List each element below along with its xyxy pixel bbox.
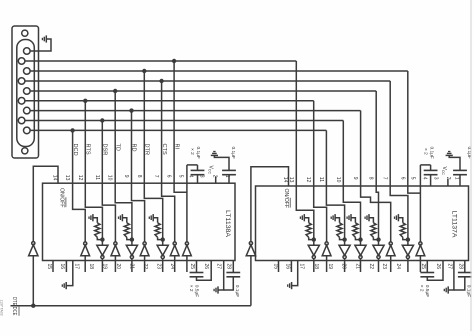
wire U2 ch1 output pin: [313, 259, 315, 272]
wire DCD drop to U1: [72, 130, 74, 183]
svg-text:20: 20: [115, 264, 121, 270]
wire U2 ch6 output pin: [390, 256, 392, 272]
wire signal row 7: [30, 110, 361, 112]
svg-text:27: 27: [446, 264, 452, 270]
capacitor C3 0.5uF x2: [190, 272, 204, 274]
svg-text:21: 21: [128, 264, 134, 270]
svg-text:17: 17: [74, 264, 80, 270]
svg-text:0.1µF: 0.1µF: [429, 147, 435, 159]
driver triangle U1 ch7: [173, 242, 176, 245]
DB9 pin circle row 1: [24, 48, 31, 55]
wire C5 to U2 p3: [430, 175, 432, 186]
svg-text:21: 21: [355, 264, 361, 270]
svg-text:CTS: CTS: [161, 144, 167, 155]
junction node U1 ch6: [161, 237, 165, 241]
U2 pin 17 stub gnd hook: [292, 261, 298, 286]
DB9 connector J1 inner D-shell: [17, 40, 35, 147]
wire signal row 3: [30, 70, 408, 72]
wire U1 ch4 jog: [115, 183, 132, 239]
wire U2 ch7 node to input: [407, 240, 409, 246]
wire U2 ch7 jog: [390, 186, 408, 240]
wire U2 p28 to C8: [464, 261, 466, 273]
svg-text:8: 8: [136, 175, 142, 178]
wire DTR drop to U1: [143, 71, 145, 183]
ground U2 ch7: [397, 214, 399, 221]
svg-text:× 2: × 2: [188, 285, 194, 292]
wire U1 ch5 output pin: [144, 256, 146, 272]
wire U1 ch6 jog: [144, 183, 162, 239]
svg-text:23: 23: [381, 264, 387, 270]
wire DTE/DCE control line: [11, 305, 251, 307]
label DCE overline: [18, 307, 20, 316]
ground U1 pin 17: [65, 282, 67, 289]
wire U2 ch8 jog: [408, 186, 421, 193]
wire signal row 4: [25, 80, 390, 82]
svg-text:18: 18: [88, 264, 94, 270]
junction node TD row 5: [113, 89, 117, 93]
wire U2 ch8 output pin: [419, 256, 421, 272]
ground U1 ch2: [92, 214, 94, 221]
resistor U1 ch6: [155, 223, 160, 238]
svg-text:12: 12: [305, 177, 311, 183]
wire U2 ch7 gnd lead: [398, 218, 402, 223]
wire gnd to C2: [214, 155, 229, 170]
wire U2 ON/OFF pin 14: [251, 167, 289, 242]
wire U4 output down: [250, 256, 252, 306]
ground U1 ch6: [152, 214, 154, 221]
capacitor C4 0.1uF: [226, 272, 240, 274]
receiver triangle U2 ch5: [373, 245, 384, 255]
svg-text:LT1137A: LT1137A: [451, 211, 457, 238]
ground U2 pin 17: [291, 282, 293, 289]
wire U1 ON/OFF pin 14: [33, 166, 58, 241]
buffer U4 DTE/DCE right: [246, 245, 255, 256]
svg-text:DSR: DSR: [102, 144, 108, 156]
label U1 ON/OFF overline: [65, 197, 67, 207]
receiver triangle U2 ch4: [355, 245, 366, 255]
receiver triangle U1 ch6: [157, 245, 168, 255]
wire U1 ch7 output pin: [174, 256, 176, 272]
driver triangle U2 ch6: [389, 242, 392, 245]
wire U1 ch2 gnd lead: [93, 218, 97, 223]
svg-text:19: 19: [327, 264, 333, 270]
svg-text:3: 3: [433, 177, 439, 180]
wire DB9 gnd pin to chassis ground: [30, 39, 51, 51]
resistor U2 ch1: [306, 223, 311, 238]
svg-text:× 2: × 2: [189, 148, 195, 155]
wire U1 ch1 jog: [73, 183, 86, 242]
svg-text:6: 6: [166, 175, 172, 178]
receiver triangle U2 ch7: [402, 245, 413, 255]
wire U1 ch6 node to input: [162, 240, 164, 246]
ground up U2 C6: [446, 154, 453, 156]
ground U1 ch4: [121, 214, 123, 221]
wire U1 ch2 jog: [85, 183, 102, 239]
U2 pin 16 stub: [290, 261, 292, 273]
driver triangle U1 ch8: [185, 242, 188, 245]
svg-text:× 2: × 2: [419, 285, 425, 292]
svg-text:27: 27: [216, 264, 222, 270]
receiver triangle U2 ch1: [308, 245, 319, 255]
wire U1 ch6 output pin: [162, 259, 164, 272]
svg-text:2: 2: [212, 175, 218, 178]
U1 pin 15 stub: [52, 261, 54, 273]
resistor U1 ch4: [124, 223, 129, 238]
svg-text:25: 25: [189, 264, 195, 270]
DB9 pin circle row 3: [24, 68, 31, 75]
wire C1 top lead: [197, 165, 199, 171]
wire U2 ch3 gnd lead: [335, 218, 339, 223]
svg-text:ON/OFF: ON/OFF: [59, 188, 65, 208]
wire U1 pin4 to C1: [187, 164, 198, 166]
wire U2 ch5 gnd lead: [369, 218, 373, 223]
wire signal row 8: [25, 120, 343, 122]
junction node U2 ch1: [312, 237, 316, 241]
wire signal row 6: [25, 100, 314, 102]
svg-text:15: 15: [273, 264, 279, 270]
capacitor C5 0.1uF x2: [424, 169, 438, 171]
DB9 pin circle row 2: [18, 58, 25, 65]
svg-text:28: 28: [225, 264, 231, 270]
svg-text:20: 20: [341, 264, 347, 270]
resistor U2 ch7: [400, 223, 405, 238]
U2 pin 15 stub: [278, 261, 280, 273]
svg-text:24: 24: [395, 264, 401, 270]
junction node U1 ch4: [130, 237, 134, 241]
DB9 mounting hole bottom: [22, 148, 28, 154]
svg-text:28: 28: [458, 264, 464, 270]
U1 pin 16 stub: [65, 261, 67, 273]
svg-text:26: 26: [203, 264, 209, 270]
wire row 3 drop to U2: [407, 71, 409, 186]
wire C6 to U2 p1: [459, 175, 461, 186]
ground U2 ch1: [303, 214, 305, 221]
driver triangle U2 ch8: [419, 242, 422, 245]
wire U2 ch3 jog: [326, 186, 344, 240]
DB9 pin circle row 6: [18, 98, 25, 105]
wire U1 ch2 res to node: [97, 237, 102, 239]
svg-text:24: 24: [169, 264, 175, 270]
wire U1 ch3 jog: [102, 183, 115, 242]
wire C5 top lead: [430, 165, 432, 171]
svg-text:9: 9: [352, 177, 358, 180]
wire U2 ch4 res to node: [355, 237, 360, 239]
wire RTS drop to U1: [84, 101, 86, 183]
svg-text:TD: TD: [114, 144, 120, 151]
wire C3 to U1 p26: [197, 261, 212, 281]
driver triangle U1 ch1: [84, 242, 87, 245]
capacitor C1 0.1uF x2: [191, 169, 205, 171]
svg-text:4: 4: [422, 177, 428, 180]
svg-text:16: 16: [285, 264, 291, 270]
svg-text:RTS: RTS: [85, 144, 91, 155]
junction node control U3: [31, 304, 35, 308]
capacitor C2 0.1uF: [222, 169, 236, 171]
driver triangle U1 ch5: [143, 242, 146, 245]
svg-text:DCD: DCD: [72, 144, 78, 156]
capacitor C7 0.5uF x2: [420, 272, 434, 274]
wire DSR drop to U1: [101, 121, 103, 184]
junction node CTS row 4: [159, 79, 163, 83]
svg-text:23: 23: [156, 264, 162, 270]
ground U1 pin 27: [217, 286, 219, 293]
junction node RI row 2: [172, 59, 176, 63]
wire U2 ch7 res to node: [403, 237, 408, 239]
wire U2 ch4 jog: [343, 186, 360, 240]
IC U1 LT1138A outline: [43, 183, 236, 260]
svg-text:8: 8: [368, 177, 374, 180]
svg-text:0.1µF: 0.1µF: [230, 147, 236, 159]
svg-text:0.5µF: 0.5µF: [193, 285, 199, 297]
U2 pin 2 Vcc stub: [447, 179, 449, 186]
svg-text:0.5µF: 0.5µF: [424, 285, 430, 297]
svg-text:9: 9: [123, 175, 129, 178]
capacitor C8 0.1uF: [458, 272, 472, 274]
svg-text:12: 12: [77, 175, 83, 181]
ground up U1 C2: [211, 154, 218, 156]
wire TD drop to U1: [114, 91, 116, 183]
wire U2 pin4/ch8 vertical: [419, 165, 421, 242]
DB9 connector J1 outer body: [12, 26, 39, 158]
wire U3 output down: [32, 256, 34, 306]
svg-text:11: 11: [94, 175, 100, 180]
junction node DTR row 3: [142, 69, 146, 73]
svg-text:5: 5: [178, 175, 184, 178]
wire U2 ch2 jog: [314, 186, 327, 242]
wire U2 ch4 gnd lead: [351, 218, 355, 223]
wire RI drop to U1: [173, 61, 175, 183]
wire row 6 drop to U2: [313, 101, 315, 186]
svg-text:26: 26: [435, 264, 441, 270]
wire U1 ch6 gnd lead: [153, 218, 157, 223]
svg-text:13: 13: [64, 175, 70, 181]
wire U2 ch5 output pin: [378, 259, 380, 272]
DB9 pin circle row 8: [18, 117, 25, 124]
driver triangle U2 ch2: [325, 242, 328, 245]
wire U1 ch3 output pin: [114, 256, 116, 272]
junction node U2 ch7: [406, 237, 410, 241]
resistor U1 ch2: [95, 223, 100, 238]
svg-text:22: 22: [368, 264, 374, 270]
wire C2 to U1 p1: [228, 175, 230, 184]
svg-text:18: 18: [313, 264, 319, 270]
wire row 2 drop to U2: [295, 61, 297, 186]
junction node U2 ch5: [376, 237, 380, 241]
ground U2 ch5: [368, 214, 370, 221]
wire U2 ch3 node to input: [344, 240, 346, 246]
svg-text:10: 10: [107, 175, 113, 181]
wire U1 pin4/ch8 vertical: [186, 165, 188, 242]
svg-text:22: 22: [142, 264, 148, 270]
resistor U2 ch4: [353, 223, 358, 238]
DB9 pin circle row 9: [24, 127, 31, 134]
wire U2 ch2 output pin: [326, 256, 328, 272]
svg-text:10: 10: [335, 177, 341, 183]
wire C8 to ground: [454, 277, 465, 290]
DB9 mounting hole top: [22, 30, 28, 36]
svg-text:16: 16: [59, 264, 65, 270]
receiver triangle U2 ch3: [339, 245, 350, 255]
svg-text:RD: RD: [131, 144, 137, 152]
svg-text:7: 7: [382, 177, 388, 180]
junction node RD row 7: [129, 108, 133, 112]
DB9 pin circle row 7: [24, 107, 31, 114]
wire C4 to ground: [224, 277, 234, 290]
wire U2 ch1 node to input: [313, 240, 315, 246]
wire U1 ch4 res to node: [127, 237, 132, 239]
wire U1 ch4 node to input: [131, 240, 133, 246]
inverter bubble U3: [32, 242, 35, 245]
capacitor C6 0.1uF: [453, 169, 467, 171]
wire U1 ch1 output pin: [84, 256, 86, 272]
wire C1 to U1 p3: [197, 175, 199, 184]
svg-text:19: 19: [102, 264, 108, 270]
svg-text:ON/OFF: ON/OFF: [283, 189, 289, 209]
svg-text:LT1138A: LT1138A: [224, 210, 230, 237]
inverter bubble U4: [249, 242, 252, 245]
label U2 ON/OFF overline: [289, 198, 291, 208]
wire signal row 9: [30, 129, 326, 131]
junction node DCD row 9: [70, 128, 74, 132]
wire U2 pin4 to C5: [420, 164, 430, 166]
resistor U2 ch5: [371, 223, 376, 238]
wire CTS drop to U1: [161, 81, 163, 183]
wire row 4 drop to U2: [389, 81, 391, 186]
wire row 8 drop to U2: [342, 121, 344, 187]
wire U1 ch4 output pin: [131, 259, 133, 272]
DB9 pin circle row 5: [24, 88, 31, 95]
svg-text:1: 1: [454, 177, 460, 180]
svg-text:1137 TA03: 1137 TA03: [0, 300, 4, 316]
junction node U2 ch3: [342, 237, 346, 241]
wire U1 ch8 output pin: [186, 256, 188, 272]
buffer U3 DTE/DCE left: [29, 245, 38, 256]
wire U2 ch4 output pin: [360, 259, 362, 272]
U1 pin 27 stub gnd hook: [218, 261, 224, 291]
svg-text:0.1µF: 0.1µF: [195, 147, 201, 159]
svg-text:7: 7: [153, 175, 159, 178]
wire U1 ch6 res to node: [158, 237, 163, 239]
svg-text:DTR: DTR: [144, 144, 150, 156]
svg-text:DTE/DCE: DTE/DCE: [11, 297, 17, 316]
wire U1 p28 to C4: [232, 261, 234, 273]
wire U2 ch7 output pin: [407, 259, 409, 272]
svg-text:× 2: × 2: [423, 148, 429, 155]
svg-text:14: 14: [282, 177, 288, 183]
wire row 7 drop to U2: [360, 111, 362, 186]
svg-text:14: 14: [52, 175, 58, 181]
chassis ground at connector: [45, 35, 47, 42]
U2 pin 27 stub gnd hook: [448, 261, 454, 291]
svg-text:15: 15: [46, 264, 52, 270]
wire U1 p25 to C3: [196, 261, 198, 273]
wire U2 ch1 gnd lead: [304, 218, 308, 223]
junction node RTS row 6: [83, 99, 87, 103]
wire U2 ch3 output pin: [344, 259, 346, 272]
wire U2 ch1 res to node: [309, 237, 314, 239]
wire RD drop to U1: [131, 111, 133, 184]
svg-text:25: 25: [420, 264, 426, 270]
resistor U2 ch3: [337, 223, 342, 238]
wire gnd to C6: [449, 155, 460, 170]
driver triangle U1 ch3: [114, 242, 117, 245]
ground U2 ch4: [350, 214, 352, 221]
wire U2 ch6 jog (double): [361, 186, 391, 242]
wire U2 ch1 jog: [296, 186, 314, 240]
junction node DSR row 8: [100, 118, 104, 122]
svg-text:RI: RI: [173, 144, 179, 150]
svg-text:17: 17: [299, 264, 305, 270]
U1 pin 17 stub gnd hook: [66, 261, 73, 286]
ground U2 ch3: [334, 214, 336, 221]
wire U2 p25 to C7: [426, 261, 428, 273]
IC U2 LT1137A outline: [256, 186, 469, 261]
DB9 pin circle row 4: [18, 78, 25, 85]
wire U1 ch5 jog: [132, 183, 145, 242]
wire signal row 5: [30, 90, 376, 92]
svg-text:6: 6: [399, 177, 405, 180]
wire U2 ch5 res to node: [373, 237, 378, 239]
page border right edge: [470, 0, 472, 331]
wire U1 ch2 node to input: [101, 240, 103, 246]
wire U2 ch3 res to node: [340, 237, 345, 239]
wire U1 ch2 output pin: [101, 259, 103, 272]
wire row 5 drop to U2: [375, 91, 377, 186]
wire U1 ch8 jog: [174, 183, 187, 192]
junction node U1 ch2: [100, 237, 104, 241]
receiver triangle U1 ch4: [126, 245, 137, 255]
wire row 9 drop to U2: [325, 130, 327, 186]
wire U2 ch5 node to input: [378, 240, 380, 246]
svg-text:5: 5: [409, 177, 415, 180]
wire U1 ch7 jog: [162, 183, 175, 242]
U1 pin 2 Vcc stub: [215, 177, 217, 184]
wire C7 to U2 p26: [427, 261, 443, 281]
svg-text:11: 11: [318, 177, 324, 182]
wire U1 ch4 gnd lead: [122, 218, 126, 223]
wire U2 ch4 node to input: [360, 240, 362, 246]
junction node U2 ch4: [358, 237, 362, 241]
wire signal row 2: [25, 60, 296, 62]
ground U2 pin 27: [447, 286, 449, 293]
receiver triangle U1 ch2: [97, 245, 108, 255]
svg-text:0.1µF: 0.1µF: [234, 285, 240, 297]
wire U2 ch5 jog: [376, 186, 378, 240]
